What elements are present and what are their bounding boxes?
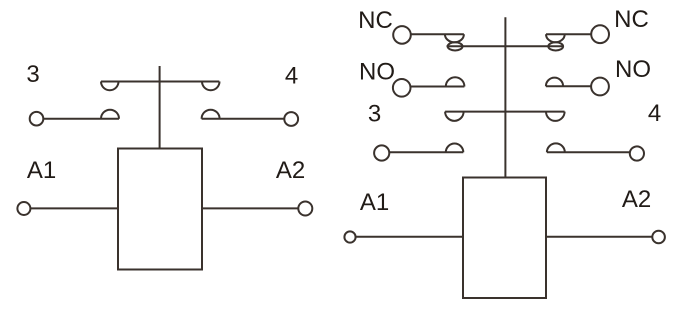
wire terminal 3 to fixed contact <box>43 118 119 120</box>
label terminal 3 (left diagram) <box>26 61 39 88</box>
fixed contact hump 4 <box>202 110 220 119</box>
terminal NC-left circle <box>393 26 411 44</box>
wire fixed contact to terminal 4 (right diagram) <box>547 151 630 153</box>
terminal A2 circle (right diagram) <box>652 231 665 244</box>
moving contact cup right (right diagram) <box>546 112 565 121</box>
moving contact ellipse NC-left <box>448 42 463 50</box>
wire A1 to coil (right diagram) <box>356 236 463 238</box>
fixed contact hump 3 (right diagram) <box>446 144 464 153</box>
actuator link (right diagram, vertical) <box>504 17 506 177</box>
wire coil to A2 <box>202 207 298 209</box>
terminal 4 circle (right diagram) <box>630 146 644 160</box>
moving contact cup left (right diagram) <box>445 112 464 121</box>
svg-text:4: 4 <box>648 100 661 127</box>
terminal NO-left circle <box>393 79 411 97</box>
moving bridge bar (right diagram contact 3-4) <box>445 111 564 113</box>
wire terminal 3 to fixed contact (right diagram) <box>389 151 463 153</box>
label A2 (left diagram) <box>276 157 305 184</box>
coil K1 (left diagram) <box>118 149 202 270</box>
terminal 3 circle <box>30 112 44 126</box>
fixed contact cup NC-left <box>445 34 464 42</box>
label NC left <box>358 7 393 34</box>
svg-text:NC: NC <box>614 6 649 33</box>
fixed contact hump 4 (right diagram) <box>547 143 565 152</box>
terminal A1 circle (left diagram) <box>17 202 30 215</box>
moving contact ellipse NC-right <box>548 42 563 50</box>
label A1 (left diagram) <box>27 157 56 184</box>
svg-text:A2: A2 <box>622 186 651 213</box>
svg-text:A1: A1 <box>360 189 389 216</box>
label NO left <box>359 59 395 86</box>
wire fixed contact to NO-right terminal <box>546 85 591 87</box>
label NC right <box>614 6 649 33</box>
svg-text:A2: A2 <box>276 157 305 184</box>
svg-text:NC: NC <box>358 7 393 34</box>
svg-text:NO: NO <box>615 56 651 83</box>
label NO right <box>615 56 651 83</box>
svg-text:A1: A1 <box>27 157 56 184</box>
wire fixed contact to NC-right terminal <box>546 33 591 35</box>
moving bridge bar (left diagram contact 3-4) <box>101 81 219 83</box>
label terminal 4 (right diagram) <box>648 100 661 127</box>
terminal 4 circle <box>284 112 298 126</box>
label terminal 4 (left diagram) <box>285 63 298 90</box>
label terminal 3 (right diagram) <box>368 101 381 128</box>
svg-text:3: 3 <box>368 101 381 128</box>
actuator link (left diagram, vertical) <box>159 66 161 149</box>
svg-text:3: 3 <box>26 61 39 88</box>
terminal NC-right circle <box>591 25 609 43</box>
moving contact cup left (under bridge bar) <box>101 82 119 91</box>
wire A1 to coil <box>30 207 118 209</box>
wire NO-left terminal to fixed contact <box>411 86 465 88</box>
terminal A1 circle (right diagram) <box>344 231 355 242</box>
wire NC-left terminal to fixed contact <box>411 33 464 35</box>
coil K2 (right diagram) <box>463 178 546 299</box>
moving bridge bar (NC contact) <box>447 45 564 47</box>
moving contact cup right (under bridge bar) <box>202 82 220 91</box>
terminal NO-right circle <box>591 78 609 96</box>
terminal 3 circle (right diagram) <box>374 145 389 160</box>
wire coil to A2 (right diagram) <box>546 236 652 238</box>
fixed contact cup NC-right <box>546 34 565 42</box>
terminal A2 circle (left diagram) <box>298 202 312 216</box>
svg-text:4: 4 <box>285 63 298 90</box>
fixed contact hump NO-right <box>546 78 563 87</box>
fixed contact hump NO-left <box>446 77 465 86</box>
svg-text:NO: NO <box>359 59 395 86</box>
wire fixed contact to terminal 4 <box>202 118 285 120</box>
label A1 (right diagram) <box>360 189 389 216</box>
label A2 (right diagram) <box>622 186 651 213</box>
fixed contact hump 3 <box>101 110 119 119</box>
